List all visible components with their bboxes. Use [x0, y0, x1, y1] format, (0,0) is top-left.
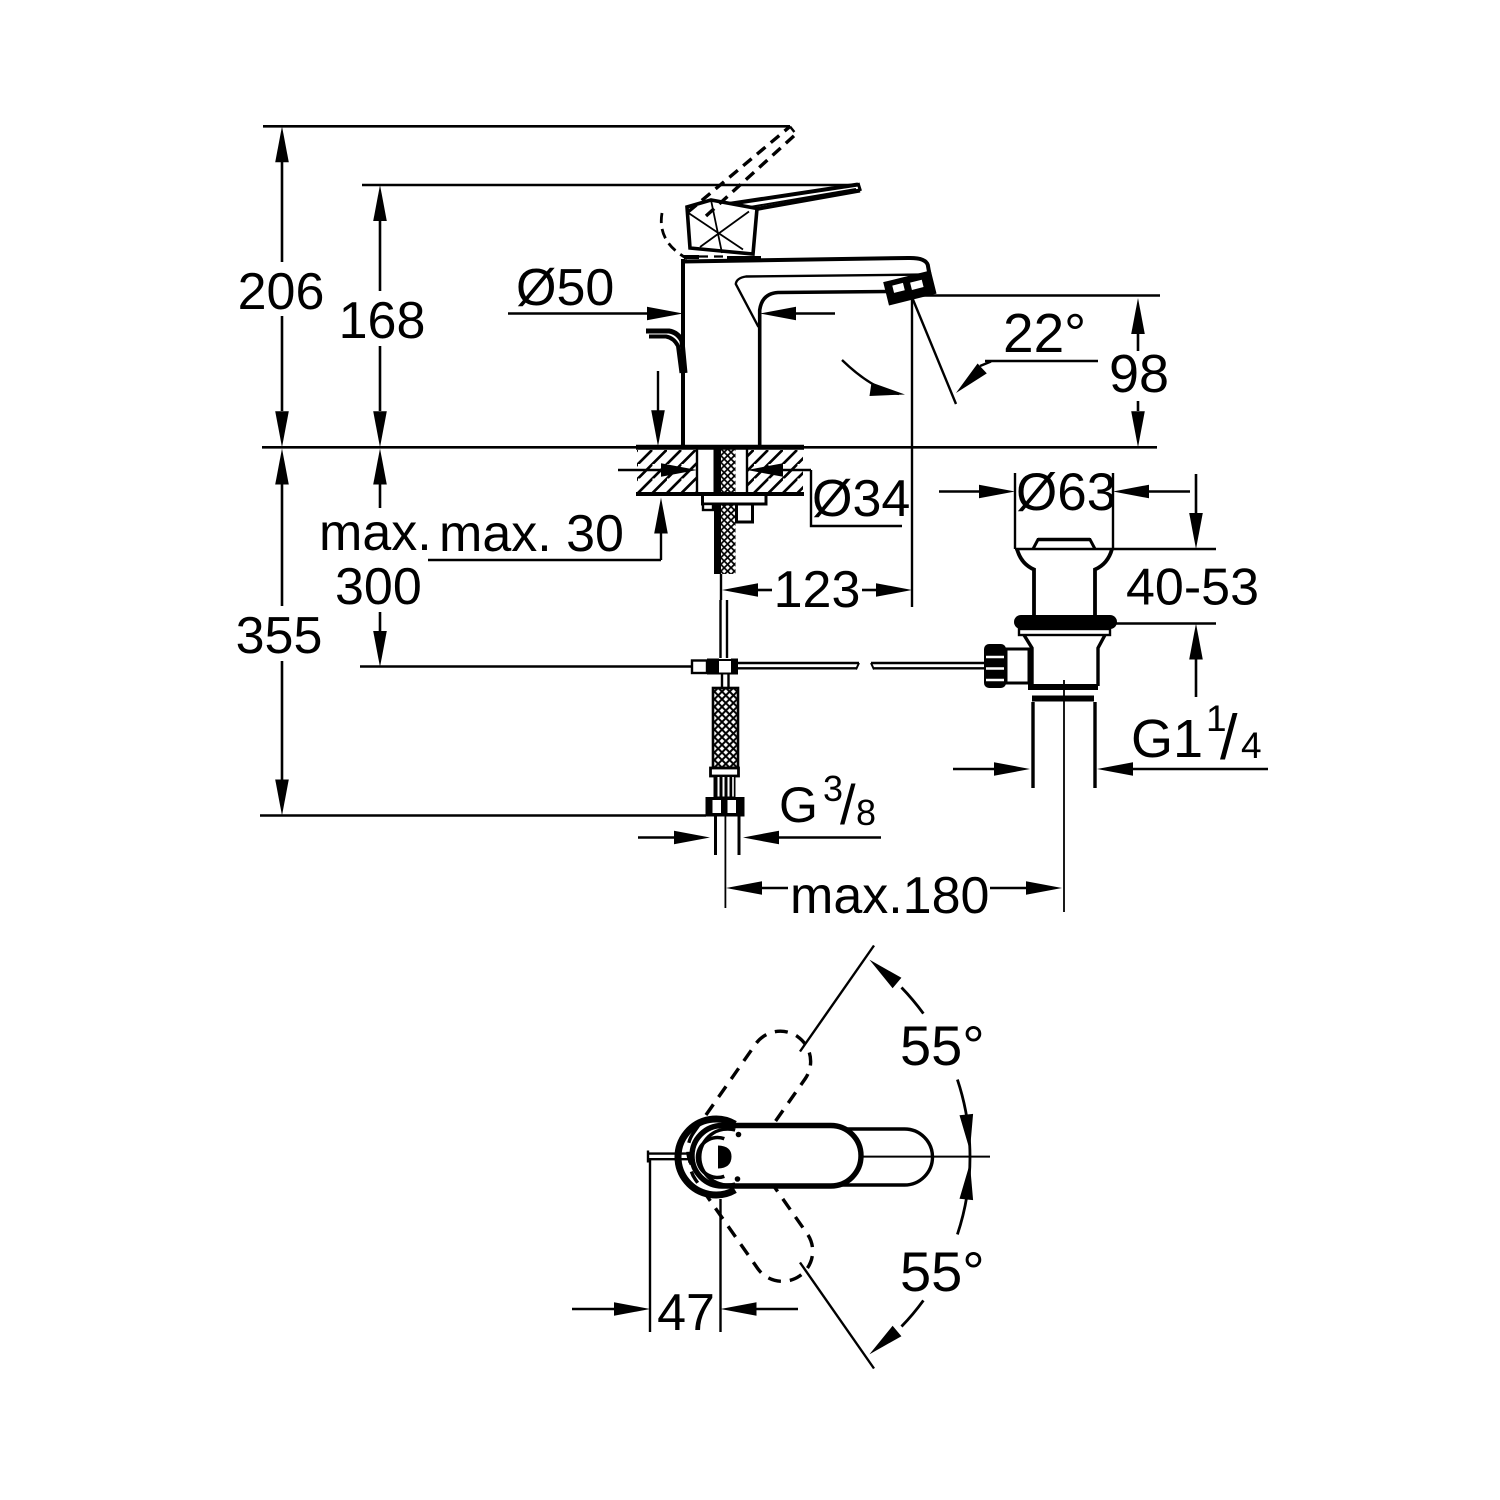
faucet centerline lower [724, 816, 726, 908]
dim 55 arc arrowheads [869, 960, 901, 989]
dim 355 line and arrows [275, 449, 289, 485]
dim 98 line and arrows [1131, 298, 1145, 334]
svg-text:max.: max. [319, 504, 432, 562]
threaded shank black stripe lower [714, 504, 721, 574]
svg-text:/: / [1220, 703, 1238, 773]
countertop reference line [262, 446, 1157, 449]
dim 22deg rotation arc [842, 360, 899, 394]
drain knob knurled [984, 644, 1006, 688]
top view escutcheon arc [678, 1119, 735, 1195]
dim 40-53 line and arrows [1195, 474, 1198, 514]
dim 355 bottom reference line [260, 814, 706, 817]
drain rubber gasket [1014, 615, 1117, 629]
svg-text:G: G [779, 777, 818, 833]
spout underside [760, 292, 889, 448]
svg-text:8: 8 [856, 792, 876, 833]
dim 40-53 reference lines [1015, 548, 1216, 550]
washer left lip [703, 504, 713, 510]
dim diameter 63 extension lines [1014, 473, 1016, 549]
svg-text:55°: 55° [900, 1240, 985, 1303]
dim 206 extension line top [263, 125, 790, 128]
countertop hatched section right block [748, 450, 803, 492]
top view lever blade stadium [700, 1129, 933, 1185]
top view dots [736, 1132, 742, 1138]
dim 206 line and arrows [275, 126, 289, 162]
drain tailpipe G1 1/4 [1031, 702, 1034, 788]
dim 22deg slanted line [912, 296, 957, 404]
svg-text:168: 168 [339, 292, 426, 350]
spout inner contour line [736, 275, 928, 328]
svg-text:355: 355 [236, 607, 323, 665]
dim 98 extension line [914, 294, 1160, 296]
svg-text:55°: 55° [900, 1014, 985, 1077]
drain centerline [1063, 680, 1065, 912]
pop-up tee junction [692, 661, 707, 674]
svg-text:/: / [840, 773, 856, 836]
threaded shank black stripe upper [714, 448, 722, 494]
dim 47 line and arrows [572, 1308, 615, 1311]
mounting hole left edge [696, 448, 698, 494]
countertop hatched section left block [637, 450, 696, 492]
dim 168 extension line top [362, 184, 860, 187]
dim 22deg leader [985, 360, 1098, 362]
dim 55 upper extension line [800, 946, 874, 1052]
dim diameter 34 leader box [811, 470, 902, 526]
G3/8 threaded tube [714, 817, 717, 856]
top view inner cartridge arc [697, 1138, 724, 1178]
svg-text:Ø63: Ø63 [1016, 463, 1116, 522]
dim max180 line and arrows [726, 881, 762, 895]
drain knob stem [1006, 649, 1029, 683]
pop-up horizontal rod right segment 1 [738, 662, 859, 664]
dim 55 lower extension line [800, 1263, 874, 1369]
drain plug cap [1033, 540, 1095, 550]
svg-text:max.180: max.180 [790, 867, 989, 925]
countertop cross-section bottom surface [636, 492, 804, 496]
flexible hose braided [713, 688, 738, 768]
top view centerline [861, 1156, 990, 1158]
pop-up horizontal rod right segment 2 [871, 662, 985, 664]
pop-up horizontal rod left reference [360, 665, 692, 667]
dim 168 line and arrows [373, 185, 387, 221]
svg-text:123: 123 [774, 561, 861, 619]
aerator / mousseur at spout tip [886, 273, 935, 303]
lever pivot block (side view) [687, 200, 757, 254]
top view dashed handle rotated down 55 [678, 1120, 824, 1293]
dim 123 extension line (spout axis) [911, 297, 913, 607]
top view center black blob [718, 1146, 732, 1169]
svg-text:47: 47 [657, 1284, 715, 1342]
drain body bottom bands [1028, 684, 1098, 690]
dim G1 1/4 line and arrows [953, 768, 995, 771]
top view grip stadium [692, 1126, 861, 1187]
dim 55 arc segments [902, 988, 924, 1014]
lever handle open position dashed (side view) [688, 127, 790, 213]
dim G3/8 line and arrows [638, 836, 675, 839]
knurled nut [714, 776, 735, 797]
hose end ring [711, 768, 739, 776]
mounting nut [737, 504, 753, 522]
svg-text:Ø34: Ø34 [812, 470, 910, 528]
drain flange [1017, 549, 1034, 616]
svg-text:206: 206 [238, 263, 325, 321]
svg-text:4: 4 [1241, 725, 1262, 766]
svg-text:Ø50: Ø50 [516, 259, 614, 317]
faucet body left edge [681, 259, 685, 447]
svg-text:98: 98 [1109, 344, 1169, 404]
svg-text:40-53: 40-53 [1126, 559, 1259, 617]
svg-text:22°: 22° [1003, 302, 1086, 364]
top view dashed handle rotated up 55 [676, 1019, 822, 1192]
threaded shank cross-hatch upper [721, 448, 736, 494]
threaded shank cross-hatch lower [721, 504, 736, 574]
drain body under gasket [1019, 629, 1110, 635]
faucet body top edge [683, 258, 930, 278]
pop-up rod vertical upper [720, 574, 722, 600]
washer under counter [703, 495, 767, 505]
dim diameter 34 arrows at hole [618, 469, 662, 472]
pop-up pull rod knob behind body (side view) [646, 331, 685, 373]
dim diameter 63 line and arrows [939, 490, 980, 493]
pop-up rod vertical double [719, 600, 721, 658]
svg-text:300: 300 [335, 558, 422, 616]
dim 47 extension lines [649, 1160, 651, 1332]
mounting hole right edge [746, 448, 748, 494]
top view pull rod [647, 1152, 692, 1154]
svg-text:G1: G1 [1131, 709, 1203, 769]
nipple below tee [721, 675, 723, 689]
lever handle solid position (side view) [702, 185, 858, 209]
countertop cross-section top surface [636, 445, 804, 450]
dim max300 line and arrows [373, 449, 387, 485]
dim 123 line and arrows [722, 583, 758, 597]
dim max30 leader and arrows [657, 371, 659, 411]
svg-text:max. 30: max. 30 [439, 505, 624, 563]
top view lever left end arc [700, 1129, 735, 1185]
hex nut G3/8 [706, 797, 745, 817]
